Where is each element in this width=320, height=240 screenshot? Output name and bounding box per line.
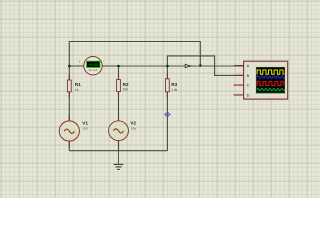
junction node A3	[166, 65, 169, 68]
sine source V1 body	[59, 121, 79, 141]
resistor R1 pins	[68, 75, 70, 98]
resistor R3 pins	[166, 74, 168, 98]
svg-text:1.4k: 1.4k	[171, 88, 178, 92]
sine source V2 body	[109, 121, 129, 141]
ammeter pins	[69, 65, 118, 67]
resistor R2 pins	[118, 75, 120, 98]
wire R3 branch down to bottom rail	[166, 66, 168, 151]
pin end tick C	[234, 84, 235, 86]
svg-text:+10: +10	[82, 126, 88, 130]
wire R2 branch down to V2 and bottom rail	[118, 66, 120, 151]
svg-text:A: A	[247, 63, 250, 68]
svg-text:V2: V2	[130, 121, 136, 126]
resistor R2 body	[117, 80, 121, 92]
resistor R3 body	[166, 79, 170, 92]
ammeter LCD display	[87, 61, 100, 67]
svg-text:V1: V1	[82, 121, 88, 126]
oscilloscope screen	[256, 67, 284, 93]
svg-text:C: C	[247, 83, 250, 88]
ground symbol	[114, 151, 124, 170]
channel A yellow square trace	[257, 70, 284, 74]
pin end tick D	[234, 94, 235, 96]
svg-text:1k: 1k	[75, 88, 79, 92]
junction node A1	[68, 65, 71, 68]
svg-text:B: B	[247, 73, 250, 78]
svg-text:AC mA: AC mA	[89, 68, 98, 72]
wire main horizontal rail y=66 from node A1 to scope pin A	[69, 65, 243, 67]
wire to scope pin B from node A3	[167, 56, 243, 76]
sine source V2 pins	[118, 114, 120, 147]
svg-text:+: +	[79, 60, 81, 64]
junction node A2	[117, 65, 120, 68]
channel D green sine trace	[257, 89, 285, 91]
oscilloscope pin stubs	[234, 66, 244, 95]
probe arrow marker on rail	[185, 64, 191, 67]
channel B blue sine trace	[257, 76, 285, 79]
sine symbol V2	[113, 129, 123, 133]
svg-text:R3: R3	[171, 82, 177, 87]
wire R1 branch down to V1 and bottom rail	[68, 66, 70, 151]
svg-text:R2: R2	[123, 82, 129, 87]
sine symbol V1	[64, 129, 74, 133]
svg-text:R1: R1	[75, 82, 81, 87]
channel C red square trace	[257, 81, 283, 85]
svg-text:10k: 10k	[123, 87, 129, 91]
svg-text:D: D	[247, 93, 250, 98]
sine source V1 pins	[68, 114, 70, 147]
svg-text:10u: 10u	[131, 126, 136, 130]
ammeter body circle	[84, 56, 102, 74]
resistor R1 body	[67, 80, 71, 92]
wire bottom rail	[69, 150, 167, 152]
blue diamond marker on R3 branch	[165, 112, 170, 116]
oscilloscope body	[244, 61, 288, 99]
junction node above scope pin A	[199, 64, 201, 66]
wire top loop from node A1 to junction above scope pin A	[69, 42, 200, 67]
svg-text:+0.00: +0.00	[89, 63, 98, 67]
